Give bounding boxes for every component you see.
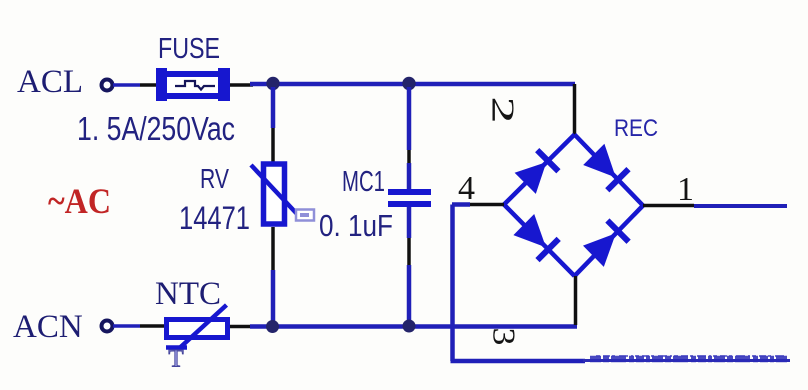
bridge arm bottom-left [504, 205, 575, 277]
svg-text:4: 4 [458, 170, 475, 207]
diode D2 (bottom to right) [583, 221, 629, 267]
svg-text:NTC: NTC [155, 276, 221, 312]
junction D (MC1 bottom) [403, 320, 416, 333]
svg-text:14471: 14471 [179, 200, 250, 236]
svg-text:RV: RV [200, 163, 229, 194]
wire ACL terminal to fuse [113, 83, 140, 87]
junction A (top of RV) [266, 77, 279, 90]
svg-text:1. 5A/250Vac: 1. 5A/250Vac [77, 110, 235, 147]
capacitor MC1 plates [388, 189, 431, 207]
wire corner to bridge top (pin 2 wire) [573, 84, 577, 136]
diode D1 (top to right) [583, 144, 628, 191]
wire fuse to junction A [230, 83, 253, 87]
svg-text:2: 2 [485, 96, 521, 123]
wire bridge right vertex output [643, 204, 694, 208]
varistor RV tag [296, 210, 314, 221]
svg-text:REC: REC [614, 115, 658, 142]
svg-text:1: 1 [677, 171, 694, 208]
bridge rectifier REC arms [504, 135, 643, 277]
wire bridge bottom vertex down to bottom rail [574, 276, 578, 325]
svg-text:ACN: ACN [13, 309, 83, 345]
varistor RV diagonal stroke [251, 165, 298, 215]
junction B (top of MC1) [402, 77, 415, 90]
wire pin4 bottom run [451, 359, 586, 364]
wire RV down to junction C [271, 227, 275, 270]
svg-text:ACL: ACL [17, 64, 83, 100]
diode D3 (left to top) [515, 150, 559, 194]
junction C (RV bottom) [266, 320, 279, 333]
thermistor NTC diagonal stroke [166, 345, 187, 350]
terminal ACN [102, 321, 113, 332]
wire bottom rail (junction C to bridge bottom) [250, 324, 577, 329]
wire junction A down to RV [271, 87, 276, 128]
wire NTC to junction C [230, 325, 252, 329]
svg-text:~AC: ~AC [48, 181, 111, 221]
svg-text:3: 3 [486, 328, 521, 346]
thermistor NTC body [167, 320, 228, 338]
varistor RV body [264, 164, 285, 224]
bridge arm top-right [575, 135, 644, 206]
fuse element squiggle [175, 81, 215, 90]
wire junction B down to MC1 [407, 87, 412, 150]
wire ACN terminal to NTC [113, 324, 140, 328]
wire MC1 down to junction D [407, 207, 412, 238]
wire top rail (junction A to corner) [250, 82, 575, 87]
svg-text:0. 1uF: 0. 1uF [319, 208, 393, 243]
wire bridge left vertex to corner [470, 203, 504, 207]
svg-text:T: T [168, 346, 183, 373]
fuse F1 body [156, 68, 230, 101]
bridge arm top-left [504, 135, 575, 205]
svg-text:FUSE: FUSE [158, 33, 220, 65]
watermark dashes on bottom wire [583, 356, 790, 361]
terminal ACL [102, 80, 113, 91]
wire pin4 vertical drop [450, 205, 455, 362]
svg-text:MC1: MC1 [342, 166, 385, 198]
bridge arm bottom-right [575, 206, 644, 277]
diode D4 (left to bottom) [513, 214, 558, 260]
